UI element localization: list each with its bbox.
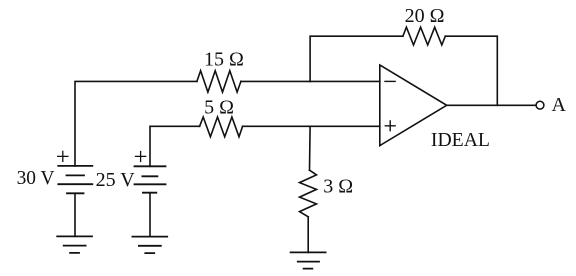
battery 25 V plus sign	[136, 152, 146, 162]
wire from 25 V battery to ground	[149, 193, 151, 237]
wire from 3 ohm resistor to ground	[307, 217, 309, 253]
op-amp triangle	[380, 65, 447, 146]
wire from 15 ohm resistor to op-amp inverting input	[241, 80, 380, 82]
wire from 20 ohm resistor down to output node	[445, 36, 497, 105]
svg-text:A: A	[552, 94, 567, 116]
node A terminal circle	[536, 101, 544, 109]
ground below 3 ohm resistor	[291, 252, 326, 268]
battery 30 V plus sign	[58, 151, 68, 161]
wire from 25 V battery up to corner then to 5 ohm resistor	[150, 126, 200, 166]
op-amp noninverting input plus sign	[385, 121, 395, 131]
wire from 30 V battery up-left corner to 15 ohm resistor input	[75, 81, 197, 165]
resistor 20 ohm	[403, 27, 445, 45]
svg-text:30 V: 30 V	[17, 167, 55, 189]
wire feedback branch up from inverting input node	[310, 36, 403, 81]
battery 30 V plates	[58, 166, 92, 193]
wire from 5 ohm resistor to op-amp noninverting input	[243, 125, 380, 127]
resistor 15 ohm	[197, 71, 241, 92]
wire from 30 V battery to ground	[74, 193, 76, 236]
svg-text:5 Ω: 5 Ω	[204, 97, 234, 119]
ground below 25 V battery	[132, 237, 167, 254]
ground below 30 V battery	[57, 236, 92, 253]
svg-text:15 Ω: 15 Ω	[204, 49, 244, 71]
svg-text:IDEAL: IDEAL	[431, 129, 490, 151]
op-amp inverting input minus sign	[385, 80, 395, 82]
wire from noninverting node down to 3 ohm resistor	[309, 126, 312, 170]
wire op-amp output to terminal A	[447, 104, 536, 106]
resistor 5 ohm	[200, 117, 243, 137]
resistor 3 ohm	[300, 170, 317, 217]
battery 25 V plates	[135, 166, 166, 192]
svg-text:25 V: 25 V	[96, 169, 136, 191]
svg-text:20 Ω: 20 Ω	[405, 5, 445, 27]
svg-text:3 Ω: 3 Ω	[323, 176, 353, 198]
